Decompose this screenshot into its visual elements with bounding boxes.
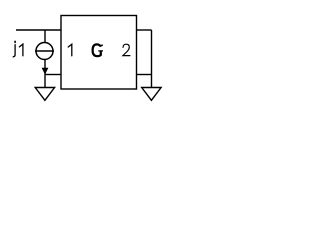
current direction arrowhead (42, 68, 48, 74)
ground left (35, 88, 54, 101)
wire j1 to ground (44, 75, 46, 88)
wire box pin2- to right (137, 74, 152, 76)
name G (93, 44, 103, 56)
wire j1 top terminal (44, 30, 46, 43)
two-port box G (61, 16, 137, 90)
wire node1 top-left (16, 29, 61, 31)
current source j1 (35, 43, 54, 60)
wire right vertical (151, 30, 153, 88)
pin label 1 (68, 44, 72, 56)
label j1 (13, 41, 23, 57)
ground right (142, 88, 161, 101)
wire box pin2+ to right (137, 29, 152, 31)
pin label 2 (123, 44, 130, 55)
wire node A to box pin1- (45, 74, 61, 76)
wire j1 bottom terminal (44, 60, 46, 75)
